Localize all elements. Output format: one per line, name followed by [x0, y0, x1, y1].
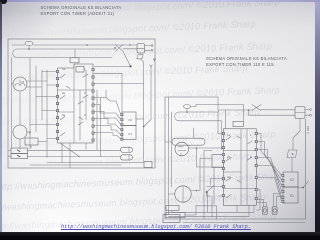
wire box B3 link [38, 141, 47, 143]
plug pin 1 [145, 45, 151, 47]
wire bottom run [47, 127, 144, 163]
svg-text:2: 2 [84, 91, 86, 95]
timer T3 left pins [222, 132, 224, 196]
svg-text:EXPORT CON TIMER 110 E 115: EXPORT CON TIMER 110 E 115 [206, 62, 274, 67]
timer section line 1 [58, 89, 94, 91]
wire timer-connector r1 [257, 134, 281, 176]
fuse F2 [183, 105, 190, 109]
wire thermostat lead right [189, 147, 223, 149]
plug pin 2 [145, 49, 151, 51]
wire motor left lead [12, 83, 14, 85]
svg-text:1: 1 [250, 133, 252, 137]
wire border drop [217, 97, 219, 110]
svg-text:P: P [29, 131, 32, 135]
wire timer top left feed [225, 110, 227, 129]
label box B1 [11, 148, 28, 154]
right corner box [163, 215, 180, 223]
wire power top right 1 [261, 109, 295, 111]
wire timer-connector 6 [94, 133, 121, 140]
pressure switch box [212, 155, 223, 168]
wire timer drop 1 [61, 143, 63, 163]
svg-text:3: 3 [84, 113, 86, 117]
plug pin 4 terminal [310, 114, 312, 116]
wire connector out [136, 118, 144, 120]
photo frame top light line [0, 0, 320, 2]
connector K1 body [122, 126, 136, 140]
timer T1 body [58, 64, 94, 143]
timer cam box [70, 58, 79, 63]
timer T3 section lines [223, 151, 256, 189]
wire motor M3 lead right [191, 190, 197, 192]
filter mid line [137, 47, 145, 49]
switch S1 (door) [116, 45, 124, 52]
wire timer top feed [74, 49, 76, 58]
switch S4 (door right) [252, 105, 261, 111]
timer inner rail 2 [85, 70, 87, 120]
wire power top right 2 [249, 110, 296, 115]
terminal lug X2 tick [128, 155, 130, 160]
bus wire V3 [41, 70, 43, 120]
heater resistor R2 (hairpin) [175, 112, 214, 121]
timer T1 left pins [56, 70, 58, 139]
wire bus tap t6 [47, 138, 58, 140]
thermostat dial [178, 147, 186, 156]
photo frame bottom band [0, 232, 320, 240]
node B [129, 44, 131, 46]
node fuse top [186, 111, 188, 113]
wire bus tap t1 [42, 71, 58, 73]
right schematic border frame [165, 97, 306, 219]
node thermostat [196, 147, 198, 149]
wire lug X2 run [28, 156, 122, 158]
wire box B3 stub [30, 145, 32, 148]
wire thermostat lead left [165, 141, 172, 143]
filter block Z2 [295, 107, 305, 119]
wire phase top [12, 44, 137, 46]
switch S3 arm [207, 186, 215, 197]
switch S5 arm [298, 181, 309, 188]
bottom corner box [144, 162, 152, 168]
bus wire V1 [29, 58, 31, 149]
wire timer-connector 4 [94, 119, 121, 130]
wire mid cross [256, 190, 260, 211]
wire timer cross link [94, 83, 144, 85]
wire bottom run 2 [30, 164, 121, 166]
wire motor lead 2 [27, 86, 43, 88]
timer section line 2 [58, 111, 75, 113]
wire switch to filter [123, 48, 137, 50]
wire clamp down [141, 59, 144, 63]
label box B3 [25, 138, 38, 145]
svg-text:SCHEMA ORIGINALE KS BILANCIATA: SCHEMA ORIGINALE KS BILANCIATA [206, 56, 287, 61]
node S3 [206, 191, 208, 193]
svg-text:3a: 3a [62, 113, 66, 117]
timer T3 contact arms [226, 136, 252, 198]
svg-text:EXPORT CON TIMER (ADDKIT 31): EXPORT CON TIMER (ADDKIT 31) [41, 11, 115, 16]
wire bus tap t3 [36, 96, 58, 98]
wire heater bottom run [75, 57, 112, 59]
watermark row 1 [0, 0, 280, 18]
wire label box stubs [8, 151, 11, 157]
wire junction lower run [94, 73, 122, 112]
svg-text:2a: 2a [62, 91, 66, 95]
wire junction to timer [94, 66, 130, 68]
wire switch diagonal [123, 51, 131, 66]
watermark row 5 [0, 85, 280, 106]
wire timer left taps [197, 112, 223, 219]
caption link [61, 224, 261, 230]
wire fuse link [186, 109, 188, 113]
wire timer-connector r3 [257, 150, 281, 186]
wire lug X1 run [28, 149, 122, 151]
wire plate feed [193, 128, 195, 138]
svg-text:1a: 1a [62, 67, 66, 71]
terminal lug X1 [121, 147, 133, 152]
bus wire V2 [35, 66, 37, 132]
wire clamp down [291, 158, 293, 173]
photo frame left edge [0, 2, 2, 240]
svg-text:3a: 3a [227, 175, 231, 179]
node C [143, 126, 145, 128]
svg-text:K1: K1 [290, 194, 294, 198]
wire motor to pump [19, 91, 21, 125]
label box B2 mark [18, 156, 21, 157]
capsule D2 circle [273, 209, 276, 212]
filter Z2 mid line [295, 112, 305, 114]
thermostat T2 [175, 142, 189, 156]
timer T3 right pins [255, 132, 257, 199]
wire heater out top [214, 110, 252, 112]
motor M3 [175, 186, 191, 202]
label box B1 mark [18, 150, 21, 152]
thermostat plate [172, 138, 205, 145]
svg-text:2a: 2a [227, 155, 231, 159]
wire timer bottom drop [236, 205, 238, 212]
terminal lug X2 [121, 155, 133, 160]
wire capsule D1 feeds [256, 200, 266, 207]
watermark row 9 [0, 171, 282, 192]
motor M1 winding symbol [15, 80, 25, 86]
wire timer-connector 3 [94, 112, 121, 125]
heater resistor R1 (hairpin) [13, 49, 75, 58]
wire timer-connector r4 [257, 158, 281, 192]
wire left bus R2 [171, 112, 173, 187]
wire motor lead 1 [27, 80, 47, 82]
wire timer-connector r2 [257, 142, 281, 181]
suppressor capsule D2 [272, 207, 277, 214]
photo frame top-left corner nub [0, 0, 7, 4]
svg-text:220 V: 220 V [306, 126, 310, 134]
capsule D1 circle [263, 209, 266, 212]
aux box C2 [166, 213, 185, 218]
motor M3 rotor line [182, 187, 184, 202]
wire bus tap t5 [30, 124, 58, 126]
wire capsule D2 feeds [273, 194, 283, 207]
watermark row 8 [0, 151, 252, 172]
watermark row 2 [0, 19, 256, 40]
switch S2 arm [144, 67, 151, 127]
plug pin 3 [305, 109, 309, 111]
wire inner left bus [11, 58, 13, 148]
connector pins [121, 114, 123, 141]
terminal lug X1 tick [128, 147, 130, 152]
node E [302, 187, 304, 189]
svg-text:K2: K2 [129, 118, 133, 122]
cord clamp left [137, 53, 143, 59]
terminal arrow aux [153, 58, 155, 61]
wire riser V6 [100, 98, 102, 157]
cord clamp right [287, 150, 297, 158]
timer T1 right pins [92, 68, 94, 141]
timer inner sub-box [76, 67, 84, 73]
wire timer left lower taps [207, 179, 223, 197]
node clamp [292, 153, 294, 155]
svg-text:1a: 1a [227, 133, 231, 137]
wire timer drop 2 [69, 143, 71, 168]
svg-text:K2: K2 [290, 178, 294, 182]
timer T3 cam box [233, 121, 243, 126]
connector K4 body [283, 187, 298, 203]
wire fuse drop [28, 46, 30, 49]
node D [248, 109, 250, 111]
plug pin 1 terminal [151, 45, 153, 47]
wire aux link [172, 205, 196, 215]
watermark row 6 [0, 107, 260, 128]
wire riser V5 [96, 90, 98, 150]
wire timer-connector 1 [94, 90, 121, 115]
wire plug down [293, 119, 300, 151]
wire heater out bottom [214, 121, 222, 150]
wire pump down [19, 139, 21, 149]
timer T3 body [223, 129, 256, 206]
board edge line [183, 221, 305, 223]
label box B2 [11, 154, 28, 159]
filter block Z1 [137, 44, 145, 54]
svg-text:M: M [22, 80, 25, 84]
connector right pins [282, 174, 284, 202]
node motor M3 [196, 190, 198, 192]
wire timer diagonal drop [60, 143, 80, 157]
svg-text:SCHEMA ORIGINALE KS BILANCIATA: SCHEMA ORIGINALE KS BILANCIATA [41, 5, 122, 10]
connector K2 body [122, 112, 136, 126]
wire bottom runs [169, 192, 255, 219]
wire timer-connector 5 [94, 126, 121, 135]
wire S2 arrowhead [150, 65, 152, 67]
wire cam feed [191, 104, 244, 121]
aux box C1 [166, 206, 179, 211]
left schematic border frame [8, 39, 155, 168]
wire pump lead [27, 131, 30, 133]
suppressor capsule D1 [262, 207, 267, 214]
wire left bus R1 [168, 97, 170, 215]
plug pin 3 terminal [310, 109, 312, 111]
watermark row 3 [0, 41, 272, 62]
timer inner rail 1 [79, 90, 81, 140]
fuse F1 [25, 41, 33, 45]
wire bus tap t4 [42, 110, 58, 112]
timer T3 divider [241, 129, 247, 206]
pump motor M2 [13, 125, 27, 139]
wire branch vertical [143, 62, 145, 126]
wire heater top run [52, 48, 116, 50]
photo frame right edge [315, 2, 320, 240]
node A [86, 44, 88, 46]
wire motor M3 lead left [169, 193, 175, 195]
wire timer-connector r6 [257, 178, 281, 202]
wire timer drop 3 [85, 143, 87, 149]
switch S1 contact circles [114, 47, 116, 49]
timer divider [73, 64, 75, 143]
timer T1 contact arms [60, 74, 88, 136]
plug pin 2 terminal [151, 49, 153, 51]
watermark row 11 [0, 211, 276, 232]
watermark row 4 [0, 63, 248, 84]
bus wire V4 [46, 70, 48, 158]
connector K3 body [283, 172, 298, 187]
node clamp junction [129, 65, 131, 67]
wire timer-connector r5 [257, 166, 281, 198]
plug pin 4 [305, 114, 309, 116]
svg-text:K1: K1 [129, 132, 133, 136]
motor M1 [13, 77, 27, 91]
wire bus tap t2 [47, 84, 58, 86]
node heater tap [28, 48, 30, 50]
watermark row 7 [0, 129, 276, 150]
wire timer-connector 2 [94, 105, 121, 120]
svg-text:1: 1 [84, 67, 86, 71]
watermark row 10 [0, 192, 266, 213]
